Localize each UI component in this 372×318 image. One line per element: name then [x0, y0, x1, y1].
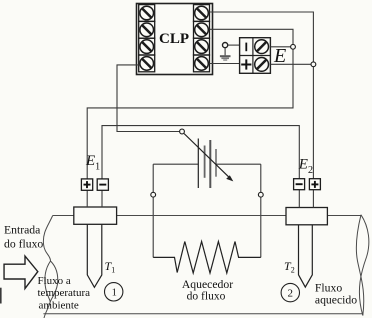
svg-text:do fluxo: do fluxo	[4, 237, 43, 250]
junction node on mid bus	[291, 44, 296, 49]
sensor2 wires from boxes to flange	[298, 190, 300, 208]
svg-text:2: 2	[287, 288, 293, 300]
node on left heater wire	[151, 192, 156, 197]
node marker circle 2	[281, 283, 299, 301]
flange fitting of sensor 1	[74, 207, 117, 224]
wire: CLP right screw 2 down-left to sensor1 plus box	[87, 29, 293, 179]
battery / source block E	[240, 38, 271, 74]
pipe top wall	[53, 215, 361, 217]
flange fitting of sensor 2	[286, 208, 327, 225]
heater loop left wire	[152, 164, 154, 257]
heater loop right wire	[260, 164, 262, 257]
svg-text:E: E	[273, 45, 286, 67]
wire: CLP left screw 4 to battery wiper arrow	[117, 65, 180, 132]
thermowell probe T1	[87, 224, 102, 287]
node marker circle 1	[105, 283, 123, 301]
svg-text:aquecido: aquecido	[315, 294, 357, 307]
pipe right break squiggle	[356, 215, 369, 316]
svg-text:CLP: CLP	[159, 31, 189, 47]
svg-text:Fluxo a: Fluxo a	[38, 275, 71, 287]
thermowell probe T2	[299, 225, 313, 287]
svg-text:Aquecedor: Aquecedor	[182, 278, 233, 291]
sensor2 minus terminal box	[294, 179, 305, 190]
node on right heater wire	[258, 192, 263, 197]
wire: E bottom screw to junction on outer bus	[270, 63, 310, 65]
minus mark (vertical bar)	[245, 43, 247, 52]
sensor1 minus terminal box	[97, 179, 108, 190]
PLC block U1 (CLP) outer box	[137, 4, 213, 75]
svg-text:do fluxo: do fluxo	[187, 290, 226, 302]
wire: CLP right screw 1 to sensor2 plus box	[210, 12, 314, 179]
plus mark	[245, 59, 247, 69]
wiper arrow across battery	[184, 134, 233, 182]
svg-text:Entrada: Entrada	[4, 224, 41, 237]
ground symbol near E source	[220, 43, 240, 61]
pipe left break squiggle	[43, 216, 57, 318]
svg-text:ambiente: ambiente	[39, 300, 79, 312]
E block screws	[255, 40, 269, 54]
inlet flow block arrow	[4, 256, 38, 288]
wire: CLP right screw 4 to E source block	[210, 63, 240, 65]
resistor R1 heater zigzag	[153, 242, 261, 274]
svg-text:temperatura: temperatura	[38, 287, 91, 299]
wire: E top screw to junction on right bus	[270, 46, 290, 48]
sensor1 wires from boxes to flange	[86, 190, 88, 207]
svg-text:1: 1	[112, 288, 117, 299]
terminal screws right column of CLP	[194, 5, 210, 72]
wire: sensor1 minus box to sensor2 minus box	[102, 126, 299, 179]
junction node on outer bus	[311, 62, 316, 67]
variable battery B1 plates	[153, 139, 261, 189]
pipe bottom wall	[43, 313, 363, 315]
terminal screws left column of CLP	[139, 5, 155, 72]
wiper node circle	[180, 129, 185, 134]
sensor2 plus terminal box	[309, 179, 320, 190]
sensor1 plus terminal box	[81, 179, 92, 190]
scan artifact left edge	[0, 288, 2, 304]
